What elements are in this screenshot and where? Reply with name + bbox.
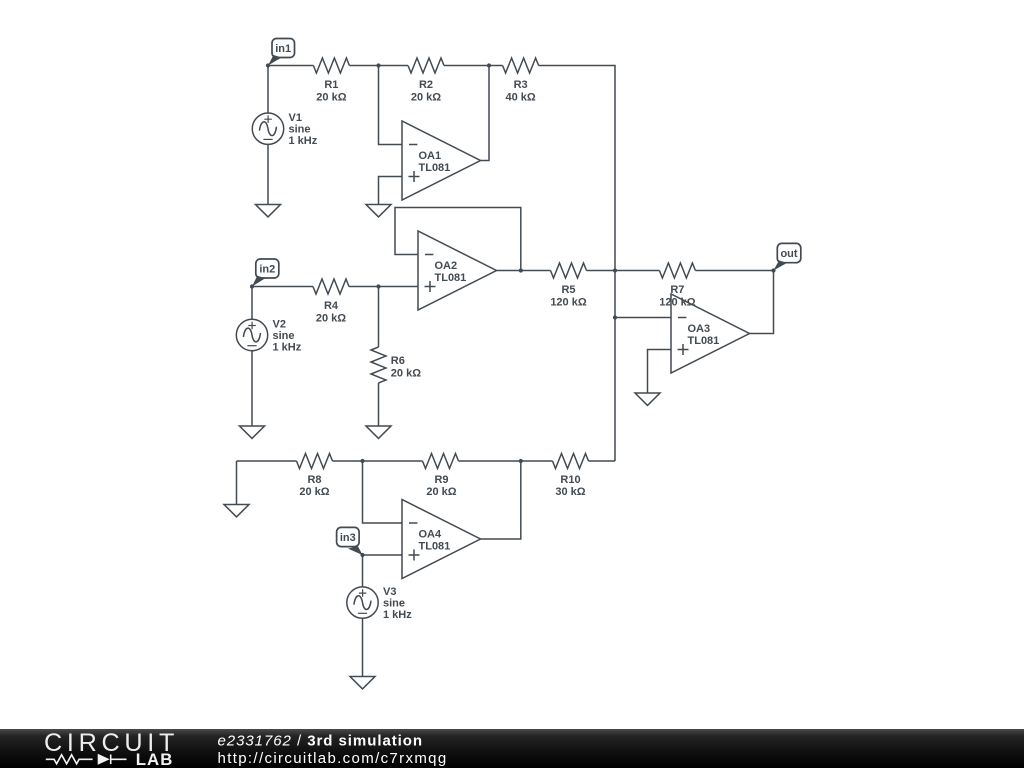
- svg-text:in2: in2: [259, 264, 275, 276]
- svg-text:20 kΩ: 20 kΩ: [316, 91, 346, 103]
- svg-text:TL081: TL081: [419, 162, 451, 174]
- svg-text:R4: R4: [324, 300, 339, 312]
- svg-text:sine: sine: [383, 598, 405, 610]
- svg-text:120 kΩ: 120 kΩ: [659, 296, 696, 308]
- svg-text:20 kΩ: 20 kΩ: [391, 367, 421, 379]
- svg-text:R9: R9: [434, 474, 448, 486]
- svg-text:R8: R8: [307, 474, 321, 486]
- svg-text:120 kΩ: 120 kΩ: [550, 296, 587, 308]
- svg-text:LAB: LAB: [136, 750, 174, 768]
- svg-text:V3: V3: [383, 586, 396, 598]
- svg-text:R6: R6: [391, 355, 405, 367]
- svg-text:in3: in3: [340, 532, 356, 544]
- svg-text:1 kHz: 1 kHz: [289, 135, 318, 147]
- svg-text:OA1: OA1: [419, 150, 442, 162]
- svg-text:sine: sine: [273, 330, 295, 342]
- svg-text:in1: in1: [275, 43, 291, 55]
- svg-text:TL081: TL081: [419, 541, 451, 553]
- svg-text:V1: V1: [289, 112, 302, 124]
- svg-text:OA2: OA2: [435, 260, 458, 272]
- svg-text:TL081: TL081: [435, 272, 467, 284]
- svg-text:OA3: OA3: [688, 323, 711, 335]
- svg-text:40 kΩ: 40 kΩ: [505, 91, 535, 103]
- svg-text:http://circuitlab.com/c7rxmqg: http://circuitlab.com/c7rxmqg: [218, 750, 448, 767]
- svg-text:R10: R10: [560, 474, 580, 486]
- svg-text:R5: R5: [561, 284, 575, 296]
- svg-text:OA4: OA4: [419, 528, 443, 540]
- svg-text:out: out: [780, 248, 797, 260]
- svg-text:V2: V2: [273, 319, 286, 331]
- svg-text:R1: R1: [324, 79, 338, 91]
- svg-text:sine: sine: [289, 124, 311, 136]
- svg-text:R2: R2: [419, 79, 433, 91]
- svg-text:20 kΩ: 20 kΩ: [316, 312, 346, 324]
- svg-text:1 kHz: 1 kHz: [383, 609, 412, 621]
- svg-text:1 kHz: 1 kHz: [273, 342, 302, 354]
- svg-text:20 kΩ: 20 kΩ: [299, 486, 329, 498]
- svg-text:R3: R3: [514, 79, 528, 91]
- svg-text:20 kΩ: 20 kΩ: [426, 486, 456, 498]
- svg-text:20 kΩ: 20 kΩ: [411, 91, 441, 103]
- svg-text:e2331762 / 3rd simulation: e2331762 / 3rd simulation: [218, 732, 424, 749]
- svg-text:R7: R7: [670, 284, 684, 296]
- svg-text:30 kΩ: 30 kΩ: [555, 486, 585, 498]
- svg-text:TL081: TL081: [688, 335, 720, 347]
